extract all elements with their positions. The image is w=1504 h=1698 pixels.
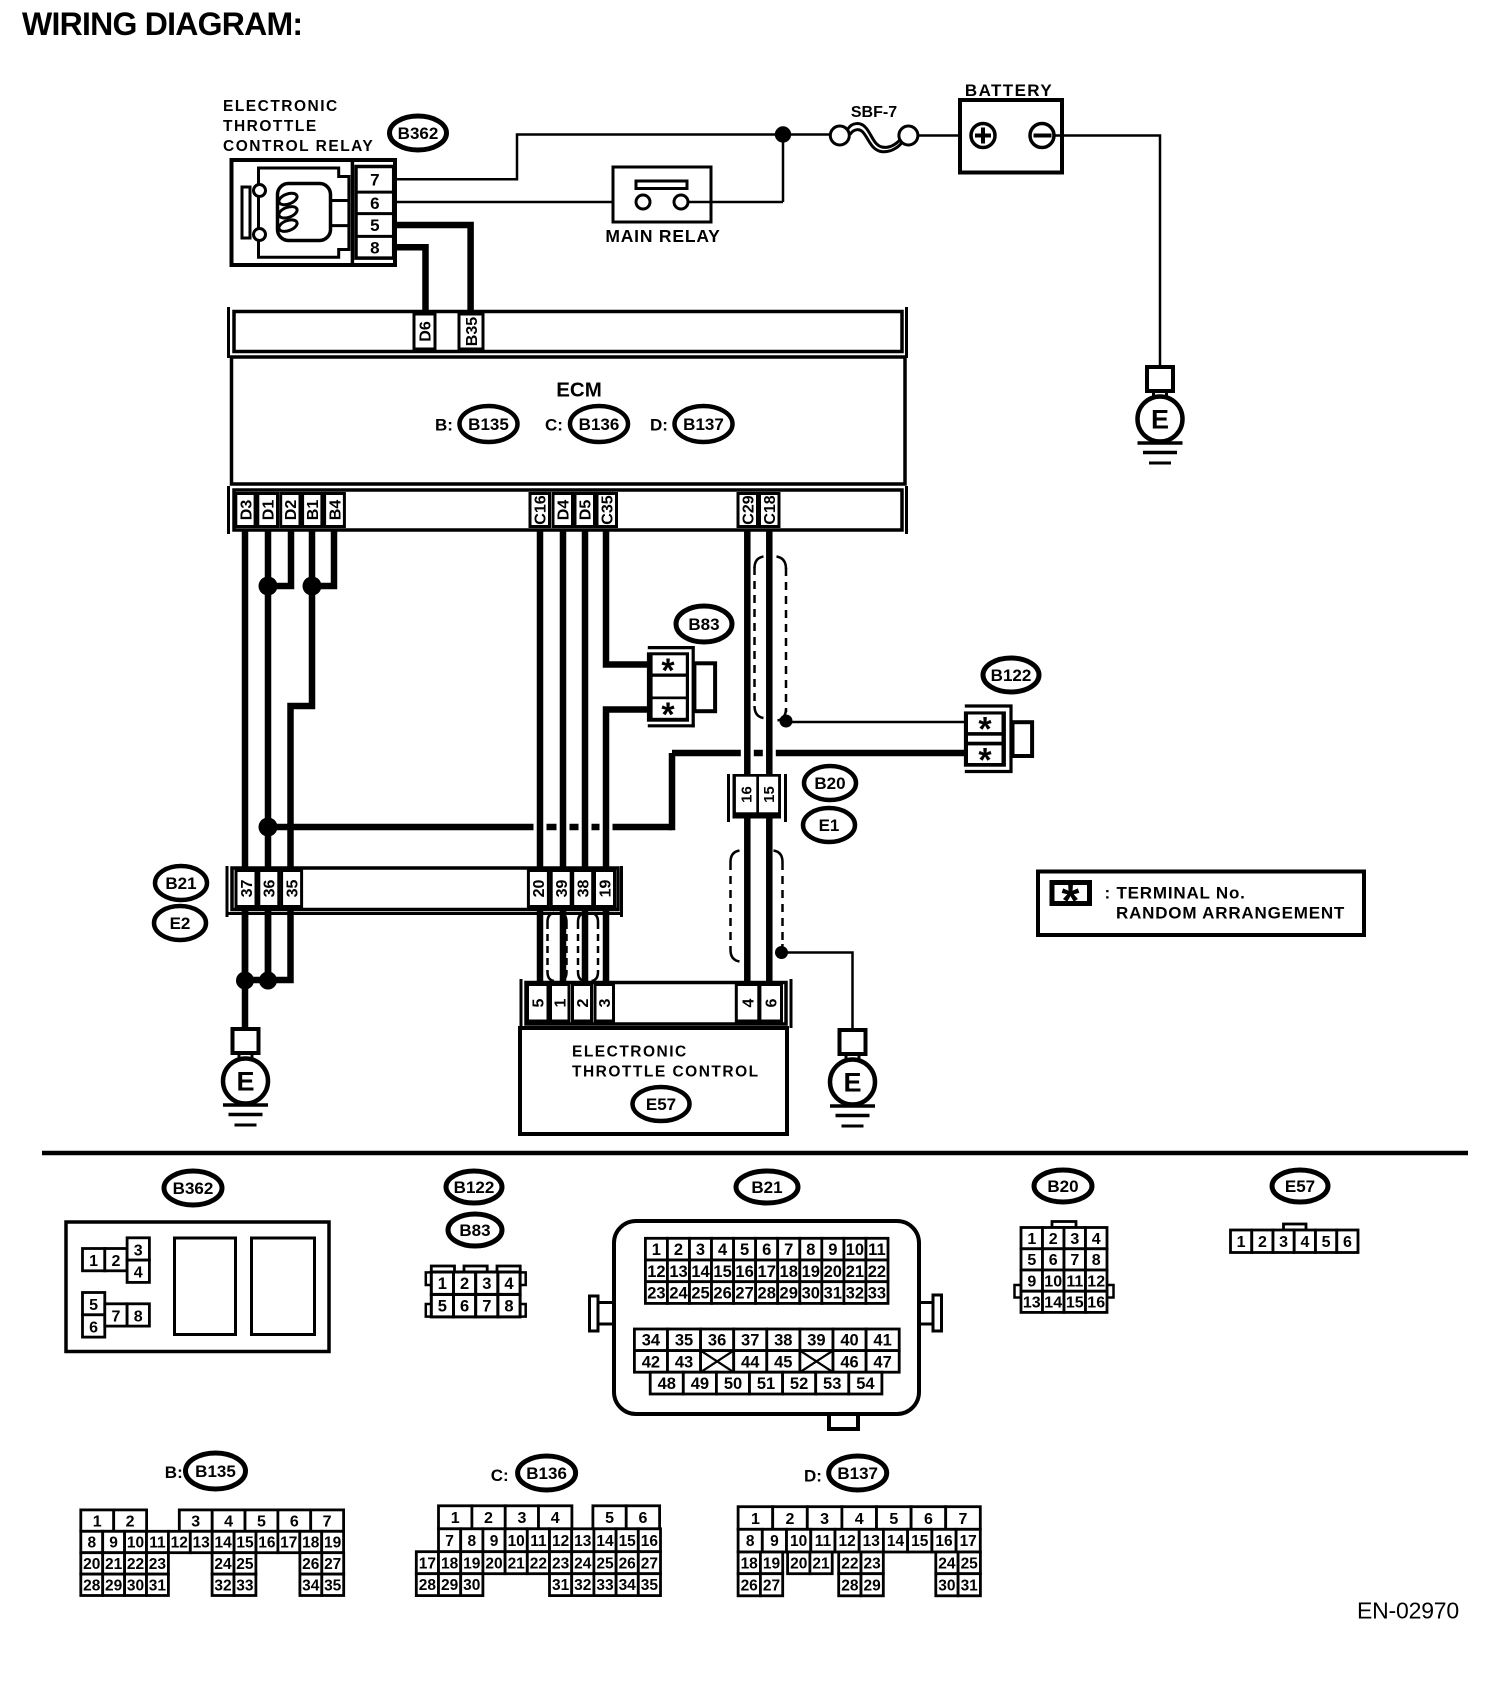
svg-text:22: 22 bbox=[127, 1556, 144, 1573]
relay B362 ELECTRONIC THROTTLE CONTROL RELAY bbox=[232, 160, 396, 265]
connector B83/B122 pinout bbox=[426, 1266, 526, 1317]
svg-text:8: 8 bbox=[467, 1533, 476, 1550]
svg-text:24: 24 bbox=[938, 1555, 956, 1572]
svg-text:9: 9 bbox=[1027, 1273, 1036, 1290]
svg-text:5: 5 bbox=[531, 998, 548, 1007]
connector E57 strip bbox=[521, 979, 791, 1028]
svg-text:6: 6 bbox=[924, 1511, 933, 1528]
svg-text:28: 28 bbox=[83, 1577, 101, 1594]
wire C35 to B83 upper pin bbox=[606, 530, 649, 665]
svg-text:D:: D: bbox=[650, 416, 668, 435]
svg-text:6: 6 bbox=[763, 998, 780, 1007]
svg-text:15: 15 bbox=[761, 786, 778, 803]
svg-text:6: 6 bbox=[290, 1513, 299, 1530]
svg-text:B136: B136 bbox=[579, 415, 620, 434]
svg-text:10: 10 bbox=[127, 1535, 144, 1552]
wire relay pin7 to battery bus bbox=[395, 135, 783, 180]
wire pin16 to E57 pin4 bbox=[744, 819, 751, 984]
svg-text:2: 2 bbox=[460, 1275, 469, 1293]
svg-text:25: 25 bbox=[961, 1555, 979, 1572]
svg-text:D4: D4 bbox=[556, 500, 573, 521]
B21/E2 pin 36 bbox=[259, 871, 279, 907]
svg-text:31: 31 bbox=[824, 1285, 842, 1303]
connector B21/E2 strip bbox=[227, 866, 622, 917]
shield dashed around C18 wire bbox=[755, 557, 787, 721]
svg-text:22: 22 bbox=[530, 1555, 547, 1572]
svg-text:14: 14 bbox=[691, 1263, 710, 1281]
svg-text:16: 16 bbox=[935, 1533, 953, 1550]
svg-text:B137: B137 bbox=[837, 1464, 878, 1483]
connector label B362 bottom bbox=[164, 1171, 222, 1205]
svg-text:B83: B83 bbox=[688, 615, 719, 634]
svg-text:1: 1 bbox=[751, 1511, 760, 1528]
label ELECTRONIC THROTTLE CONTROL RELAY bbox=[223, 98, 374, 155]
shield drain node to B122 bbox=[780, 715, 793, 728]
svg-text:1: 1 bbox=[89, 1253, 98, 1270]
svg-text:19: 19 bbox=[597, 880, 614, 898]
svg-text:19: 19 bbox=[324, 1535, 342, 1552]
wire pin20 to E57 pin5 bbox=[537, 910, 544, 984]
svg-text:D5: D5 bbox=[578, 500, 595, 521]
battery bbox=[960, 81, 1062, 173]
wire D5 to pin38 bbox=[582, 530, 589, 870]
svg-text:1: 1 bbox=[451, 1510, 460, 1527]
svg-text:B1: B1 bbox=[305, 500, 322, 521]
connector B20 pinout bbox=[1015, 1222, 1114, 1313]
svg-text:ELECTRONIC: ELECTRONIC bbox=[223, 98, 339, 115]
svg-text:C35: C35 bbox=[600, 495, 617, 524]
connector label E57 bottom bbox=[1272, 1170, 1328, 1202]
svg-text:11: 11 bbox=[868, 1241, 885, 1259]
svg-text:B:: B: bbox=[165, 1463, 183, 1482]
svg-text:*: * bbox=[661, 696, 675, 734]
svg-text:: TERMINAL No.: : TERMINAL No. bbox=[1105, 884, 1246, 903]
svg-text:21: 21 bbox=[105, 1556, 123, 1573]
svg-text:1: 1 bbox=[438, 1275, 447, 1293]
relay connector strip pins 7 6 5 8 bbox=[356, 167, 394, 259]
svg-text:9: 9 bbox=[828, 1241, 837, 1259]
svg-text:20: 20 bbox=[83, 1556, 100, 1573]
junction node B1/B4 bbox=[303, 577, 322, 596]
svg-text:ELECTRONIC: ELECTRONIC bbox=[572, 1044, 688, 1061]
connector label B20 bottom bbox=[1034, 1170, 1092, 1202]
svg-text:B136: B136 bbox=[526, 1464, 567, 1483]
title WIRING DIAGRAM bbox=[22, 6, 302, 42]
svg-text:45: 45 bbox=[774, 1353, 792, 1371]
svg-text:39: 39 bbox=[554, 880, 571, 898]
svg-text:31: 31 bbox=[149, 1577, 167, 1594]
svg-text:2: 2 bbox=[111, 1253, 120, 1270]
svg-text:7: 7 bbox=[111, 1308, 120, 1325]
svg-text:WIRING DIAGRAM:: WIRING DIAGRAM: bbox=[22, 6, 302, 42]
svg-text:35: 35 bbox=[675, 1332, 693, 1350]
svg-text:RANDOM ARRANGEMENT: RANDOM ARRANGEMENT bbox=[1116, 904, 1345, 923]
svg-text:B20: B20 bbox=[1047, 1177, 1078, 1196]
svg-text:48: 48 bbox=[658, 1375, 676, 1393]
svg-text:20: 20 bbox=[531, 880, 548, 898]
svg-text:17: 17 bbox=[419, 1555, 436, 1572]
svg-text:26: 26 bbox=[713, 1285, 731, 1303]
connector label B122 bbox=[983, 658, 1039, 692]
svg-text:28: 28 bbox=[419, 1577, 437, 1594]
svg-text:49: 49 bbox=[691, 1375, 709, 1393]
connector label B21 bbox=[155, 866, 207, 900]
ECM bottom connector strip bbox=[229, 486, 907, 534]
svg-text:18: 18 bbox=[780, 1263, 798, 1281]
svg-text:13: 13 bbox=[669, 1263, 687, 1281]
svg-text:BATTERY: BATTERY bbox=[965, 81, 1053, 100]
svg-text:14: 14 bbox=[1044, 1295, 1062, 1312]
svg-text:3: 3 bbox=[191, 1513, 200, 1530]
svg-text:MAIN RELAY: MAIN RELAY bbox=[605, 226, 720, 246]
svg-text:37: 37 bbox=[741, 1332, 759, 1350]
svg-text:2: 2 bbox=[484, 1510, 493, 1527]
svg-text:22: 22 bbox=[841, 1555, 858, 1572]
svg-text:26: 26 bbox=[302, 1556, 320, 1573]
connector label B21 bottom bbox=[736, 1171, 798, 1203]
svg-text:43: 43 bbox=[675, 1353, 693, 1371]
connector label B83 bottom bbox=[448, 1214, 502, 1246]
wire relay pin8 to ECM D6 (thick) bbox=[395, 247, 426, 312]
svg-text:14: 14 bbox=[596, 1533, 614, 1550]
svg-text:21: 21 bbox=[812, 1555, 830, 1572]
svg-text:25: 25 bbox=[596, 1555, 614, 1572]
svg-text:30: 30 bbox=[127, 1577, 144, 1594]
legend terminal no. random arrangement bbox=[1038, 872, 1364, 936]
svg-text:40: 40 bbox=[840, 1332, 858, 1350]
wire C29 to pin16 bbox=[744, 530, 751, 776]
svg-text:27: 27 bbox=[735, 1285, 753, 1303]
ECM pin B35 bbox=[459, 314, 483, 349]
svg-text:3: 3 bbox=[820, 1511, 829, 1528]
svg-text:B135: B135 bbox=[195, 1462, 236, 1481]
svg-text:E2: E2 bbox=[170, 914, 191, 933]
svg-text:26: 26 bbox=[741, 1577, 759, 1594]
svg-text:5: 5 bbox=[89, 1297, 98, 1314]
svg-text:4: 4 bbox=[740, 998, 757, 1007]
svg-text:23: 23 bbox=[863, 1555, 881, 1572]
svg-text:8: 8 bbox=[504, 1298, 513, 1316]
svg-text:33: 33 bbox=[868, 1285, 886, 1303]
svg-text:4: 4 bbox=[855, 1511, 864, 1528]
connector label B83 bbox=[676, 606, 732, 642]
thick bus wire from D1 junction to B122 (with crossover gaps) bbox=[268, 753, 964, 830]
svg-text:6: 6 bbox=[1049, 1252, 1058, 1269]
wire D1 to ground junction bbox=[265, 530, 272, 980]
svg-text:33: 33 bbox=[596, 1577, 614, 1594]
ECM connector label B: B135 bbox=[435, 406, 518, 442]
svg-text:B122: B122 bbox=[454, 1178, 495, 1197]
svg-text:15: 15 bbox=[911, 1533, 929, 1550]
svg-text:7: 7 bbox=[1070, 1252, 1079, 1269]
svg-text:38: 38 bbox=[575, 880, 592, 898]
svg-text:C:: C: bbox=[491, 1466, 509, 1485]
svg-text:23: 23 bbox=[647, 1285, 665, 1303]
svg-text:28: 28 bbox=[841, 1577, 859, 1594]
svg-text:4: 4 bbox=[718, 1241, 728, 1259]
svg-text:6: 6 bbox=[762, 1241, 771, 1259]
svg-text:6: 6 bbox=[370, 194, 379, 213]
svg-text:2: 2 bbox=[1049, 1231, 1058, 1248]
connector B137 pinout bbox=[738, 1507, 980, 1596]
svg-text:29: 29 bbox=[441, 1577, 459, 1594]
wire B1 to pin35 with jog bbox=[291, 530, 313, 870]
svg-text:12: 12 bbox=[1087, 1273, 1105, 1290]
shield dashed around pin39 wire bbox=[548, 913, 567, 981]
svg-text:8: 8 bbox=[1092, 1252, 1101, 1269]
svg-text:30: 30 bbox=[938, 1577, 955, 1594]
connector label C: B136 bbox=[491, 1456, 576, 1490]
svg-text:29: 29 bbox=[105, 1577, 123, 1594]
svg-text:24: 24 bbox=[574, 1555, 592, 1572]
ECM body bbox=[232, 357, 906, 484]
svg-text:SBF-7: SBF-7 bbox=[851, 104, 897, 121]
svg-text:5: 5 bbox=[257, 1513, 266, 1530]
ECM pin D2 bbox=[281, 494, 300, 527]
ECM pin C35 bbox=[597, 494, 617, 527]
wire bus to SBF-7 bbox=[791, 133, 831, 136]
svg-text:4: 4 bbox=[1300, 1234, 1309, 1251]
B21/E2 pin 38 bbox=[573, 871, 593, 907]
svg-text:22: 22 bbox=[868, 1263, 886, 1281]
svg-text:52: 52 bbox=[790, 1375, 808, 1393]
svg-text:B83: B83 bbox=[459, 1221, 490, 1240]
svg-text:*: * bbox=[978, 742, 992, 780]
svg-text:2: 2 bbox=[126, 1513, 135, 1530]
svg-text:8: 8 bbox=[370, 239, 379, 258]
svg-text:D1: D1 bbox=[260, 500, 277, 521]
svg-text:4: 4 bbox=[551, 1510, 560, 1527]
wire relay pin6 to main relay bbox=[395, 201, 636, 204]
svg-text:21: 21 bbox=[508, 1555, 526, 1572]
svg-text:18: 18 bbox=[302, 1535, 320, 1552]
ECM pin C16 bbox=[530, 494, 550, 527]
section divider line bbox=[42, 1151, 1468, 1156]
svg-text:E: E bbox=[236, 1067, 254, 1097]
wire C18 to pin15 bbox=[766, 530, 773, 776]
svg-text:7: 7 bbox=[370, 171, 379, 190]
svg-text:*: * bbox=[1062, 875, 1080, 927]
svg-text:1: 1 bbox=[553, 998, 570, 1007]
svg-text:4: 4 bbox=[504, 1275, 514, 1293]
ECM pin D1 bbox=[258, 494, 278, 527]
wire pin19 to E57 pin3 bbox=[603, 910, 610, 984]
svg-text:THROTTLE CONTROL: THROTTLE CONTROL bbox=[572, 1064, 760, 1081]
svg-text:1: 1 bbox=[93, 1513, 102, 1530]
svg-text:6: 6 bbox=[1343, 1234, 1352, 1251]
svg-text:15: 15 bbox=[236, 1535, 254, 1552]
svg-text:D:: D: bbox=[804, 1467, 822, 1486]
ECM top connector strip bbox=[229, 307, 907, 358]
svg-text:10: 10 bbox=[508, 1533, 525, 1550]
wire D3 to ground junction bbox=[242, 530, 249, 980]
wire D4 to pin39 bbox=[560, 530, 567, 870]
ground E near E57 bbox=[830, 1030, 875, 1126]
svg-text:3: 3 bbox=[597, 998, 614, 1007]
connector label B122 bottom bbox=[446, 1171, 502, 1203]
svg-text:5: 5 bbox=[605, 1510, 614, 1527]
svg-text:12: 12 bbox=[838, 1533, 855, 1550]
svg-text:E57: E57 bbox=[646, 1095, 676, 1114]
E57 pin 6 bbox=[760, 985, 782, 1022]
svg-text:18: 18 bbox=[441, 1555, 459, 1572]
svg-text:1: 1 bbox=[1027, 1231, 1036, 1248]
svg-text:25: 25 bbox=[236, 1556, 254, 1573]
svg-text:8: 8 bbox=[134, 1308, 143, 1325]
B21/E2 pin 37 bbox=[236, 871, 256, 907]
svg-text:14: 14 bbox=[887, 1533, 905, 1550]
ground E battery bbox=[1138, 367, 1183, 463]
svg-text:B137: B137 bbox=[683, 415, 724, 434]
ECM pin D6 bbox=[414, 314, 435, 349]
svg-text:13: 13 bbox=[863, 1533, 881, 1550]
svg-text:24: 24 bbox=[669, 1285, 688, 1303]
svg-text:24: 24 bbox=[214, 1556, 232, 1573]
svg-text:B135: B135 bbox=[468, 415, 509, 434]
svg-text:EN-02970: EN-02970 bbox=[1357, 1598, 1459, 1624]
svg-text:13: 13 bbox=[1023, 1295, 1041, 1312]
svg-text:16: 16 bbox=[735, 1263, 753, 1281]
svg-text:30: 30 bbox=[463, 1577, 480, 1594]
wire pin36 down to ground junction bbox=[265, 910, 272, 981]
svg-text:7: 7 bbox=[959, 1511, 968, 1528]
svg-text:16: 16 bbox=[641, 1533, 659, 1550]
connector B136 pinout bbox=[416, 1506, 660, 1596]
svg-text:12: 12 bbox=[552, 1533, 569, 1550]
svg-text:32: 32 bbox=[214, 1577, 231, 1594]
svg-text:17: 17 bbox=[758, 1263, 776, 1281]
svg-text:15: 15 bbox=[1066, 1295, 1084, 1312]
svg-text:9: 9 bbox=[770, 1533, 779, 1550]
main relay bbox=[605, 167, 720, 246]
ECM connector label C: B136 bbox=[545, 406, 628, 442]
connector B122 bbox=[964, 705, 1032, 780]
svg-text:3: 3 bbox=[482, 1275, 491, 1293]
connector B135 pinout bbox=[81, 1510, 344, 1596]
svg-text:10: 10 bbox=[790, 1533, 807, 1550]
svg-text:B20: B20 bbox=[814, 774, 845, 793]
svg-text:13: 13 bbox=[574, 1533, 592, 1550]
connector label B362 bbox=[390, 116, 447, 150]
ECM pin B1 bbox=[303, 494, 322, 527]
document number EN-02970 bbox=[1357, 1598, 1459, 1624]
svg-text:19: 19 bbox=[763, 1555, 781, 1572]
svg-text:27: 27 bbox=[324, 1556, 341, 1573]
shield drain node to ground bbox=[775, 946, 788, 959]
E57 pin 4 bbox=[736, 985, 759, 1022]
svg-text:20: 20 bbox=[824, 1263, 842, 1281]
svg-text:7: 7 bbox=[323, 1513, 332, 1530]
svg-text:2: 2 bbox=[575, 998, 592, 1007]
svg-text:9: 9 bbox=[490, 1533, 499, 1550]
svg-text:25: 25 bbox=[691, 1285, 709, 1303]
svg-text:28: 28 bbox=[758, 1285, 776, 1303]
svg-text:29: 29 bbox=[780, 1285, 798, 1303]
shield dashed around pin38 wire bbox=[578, 913, 598, 981]
B21/E2 pin 20 bbox=[528, 871, 548, 907]
wire junction to ground E bbox=[242, 980, 249, 1029]
svg-text:39: 39 bbox=[807, 1332, 825, 1350]
wire relay pin5 to ECM B35 (thick) bbox=[395, 225, 471, 312]
connector label B20 bbox=[804, 766, 856, 800]
svg-text:E: E bbox=[1151, 405, 1169, 435]
svg-text:10: 10 bbox=[1044, 1273, 1062, 1290]
junction node battery bus bbox=[775, 126, 791, 142]
wire B83 lower pin to pin19 bbox=[606, 710, 649, 871]
svg-text:1: 1 bbox=[652, 1241, 661, 1259]
svg-text:53: 53 bbox=[823, 1375, 841, 1393]
wire pin39 to E57 pin1 bbox=[560, 910, 567, 984]
svg-text:15: 15 bbox=[619, 1533, 637, 1550]
wire main relay to battery bus vertical bbox=[688, 135, 783, 203]
E57 pin 3 bbox=[595, 985, 614, 1022]
svg-text:11: 11 bbox=[1066, 1273, 1083, 1290]
svg-text:B362: B362 bbox=[398, 124, 439, 143]
wire SBF-7 to battery bbox=[918, 134, 972, 137]
svg-text:11: 11 bbox=[149, 1535, 166, 1552]
svg-text:20: 20 bbox=[790, 1555, 807, 1572]
svg-text:42: 42 bbox=[642, 1353, 660, 1371]
svg-text:12: 12 bbox=[171, 1535, 188, 1552]
B21/E2 pin 39 bbox=[551, 871, 571, 907]
svg-text:7: 7 bbox=[482, 1298, 491, 1316]
svg-text:C18: C18 bbox=[762, 495, 779, 524]
ECM pin C18 bbox=[760, 494, 780, 527]
svg-text:3: 3 bbox=[1279, 1234, 1288, 1251]
svg-text:16: 16 bbox=[258, 1535, 276, 1552]
svg-text:E57: E57 bbox=[1285, 1177, 1315, 1196]
svg-text:11: 11 bbox=[530, 1533, 547, 1550]
ECM pin D3 bbox=[236, 494, 255, 527]
svg-text:8: 8 bbox=[87, 1535, 96, 1552]
svg-text:16: 16 bbox=[1087, 1295, 1105, 1312]
svg-text:16: 16 bbox=[739, 786, 756, 803]
svg-text:4: 4 bbox=[134, 1265, 143, 1282]
junction node pin36 bbox=[259, 972, 277, 990]
svg-text:4: 4 bbox=[1092, 1231, 1101, 1248]
svg-text:7: 7 bbox=[784, 1241, 793, 1259]
svg-text:C16: C16 bbox=[533, 495, 550, 524]
svg-text:34: 34 bbox=[302, 1577, 320, 1594]
svg-text:21: 21 bbox=[846, 1263, 864, 1281]
shield dashed around pin16/15 wires bbox=[731, 851, 783, 962]
svg-text:2: 2 bbox=[1258, 1234, 1267, 1251]
svg-text:7: 7 bbox=[445, 1533, 454, 1550]
svg-text:31: 31 bbox=[552, 1577, 570, 1594]
svg-text:B122: B122 bbox=[991, 666, 1032, 685]
svg-text:B4: B4 bbox=[327, 500, 344, 521]
connector label E2 bbox=[154, 906, 206, 940]
svg-text:10: 10 bbox=[846, 1241, 864, 1259]
svg-text:35: 35 bbox=[284, 880, 301, 898]
wire pin37 down to ground junction bbox=[242, 910, 249, 981]
svg-text:12: 12 bbox=[647, 1263, 665, 1281]
svg-text:D2: D2 bbox=[283, 500, 300, 521]
E57 pin 1 bbox=[551, 985, 570, 1022]
svg-text:30: 30 bbox=[802, 1285, 820, 1303]
svg-text:34: 34 bbox=[619, 1577, 637, 1594]
connector label B: B135 bbox=[165, 1453, 246, 1489]
svg-text:29: 29 bbox=[863, 1577, 881, 1594]
svg-text:CONTROL RELAY: CONTROL RELAY bbox=[223, 138, 374, 155]
connector B83 bbox=[647, 646, 715, 734]
svg-text:E1: E1 bbox=[819, 816, 840, 835]
svg-text:3: 3 bbox=[1070, 1231, 1079, 1248]
svg-text:E: E bbox=[843, 1068, 861, 1098]
svg-text:37: 37 bbox=[239, 880, 256, 898]
svg-text:36: 36 bbox=[708, 1332, 726, 1350]
svg-text:33: 33 bbox=[236, 1577, 254, 1594]
